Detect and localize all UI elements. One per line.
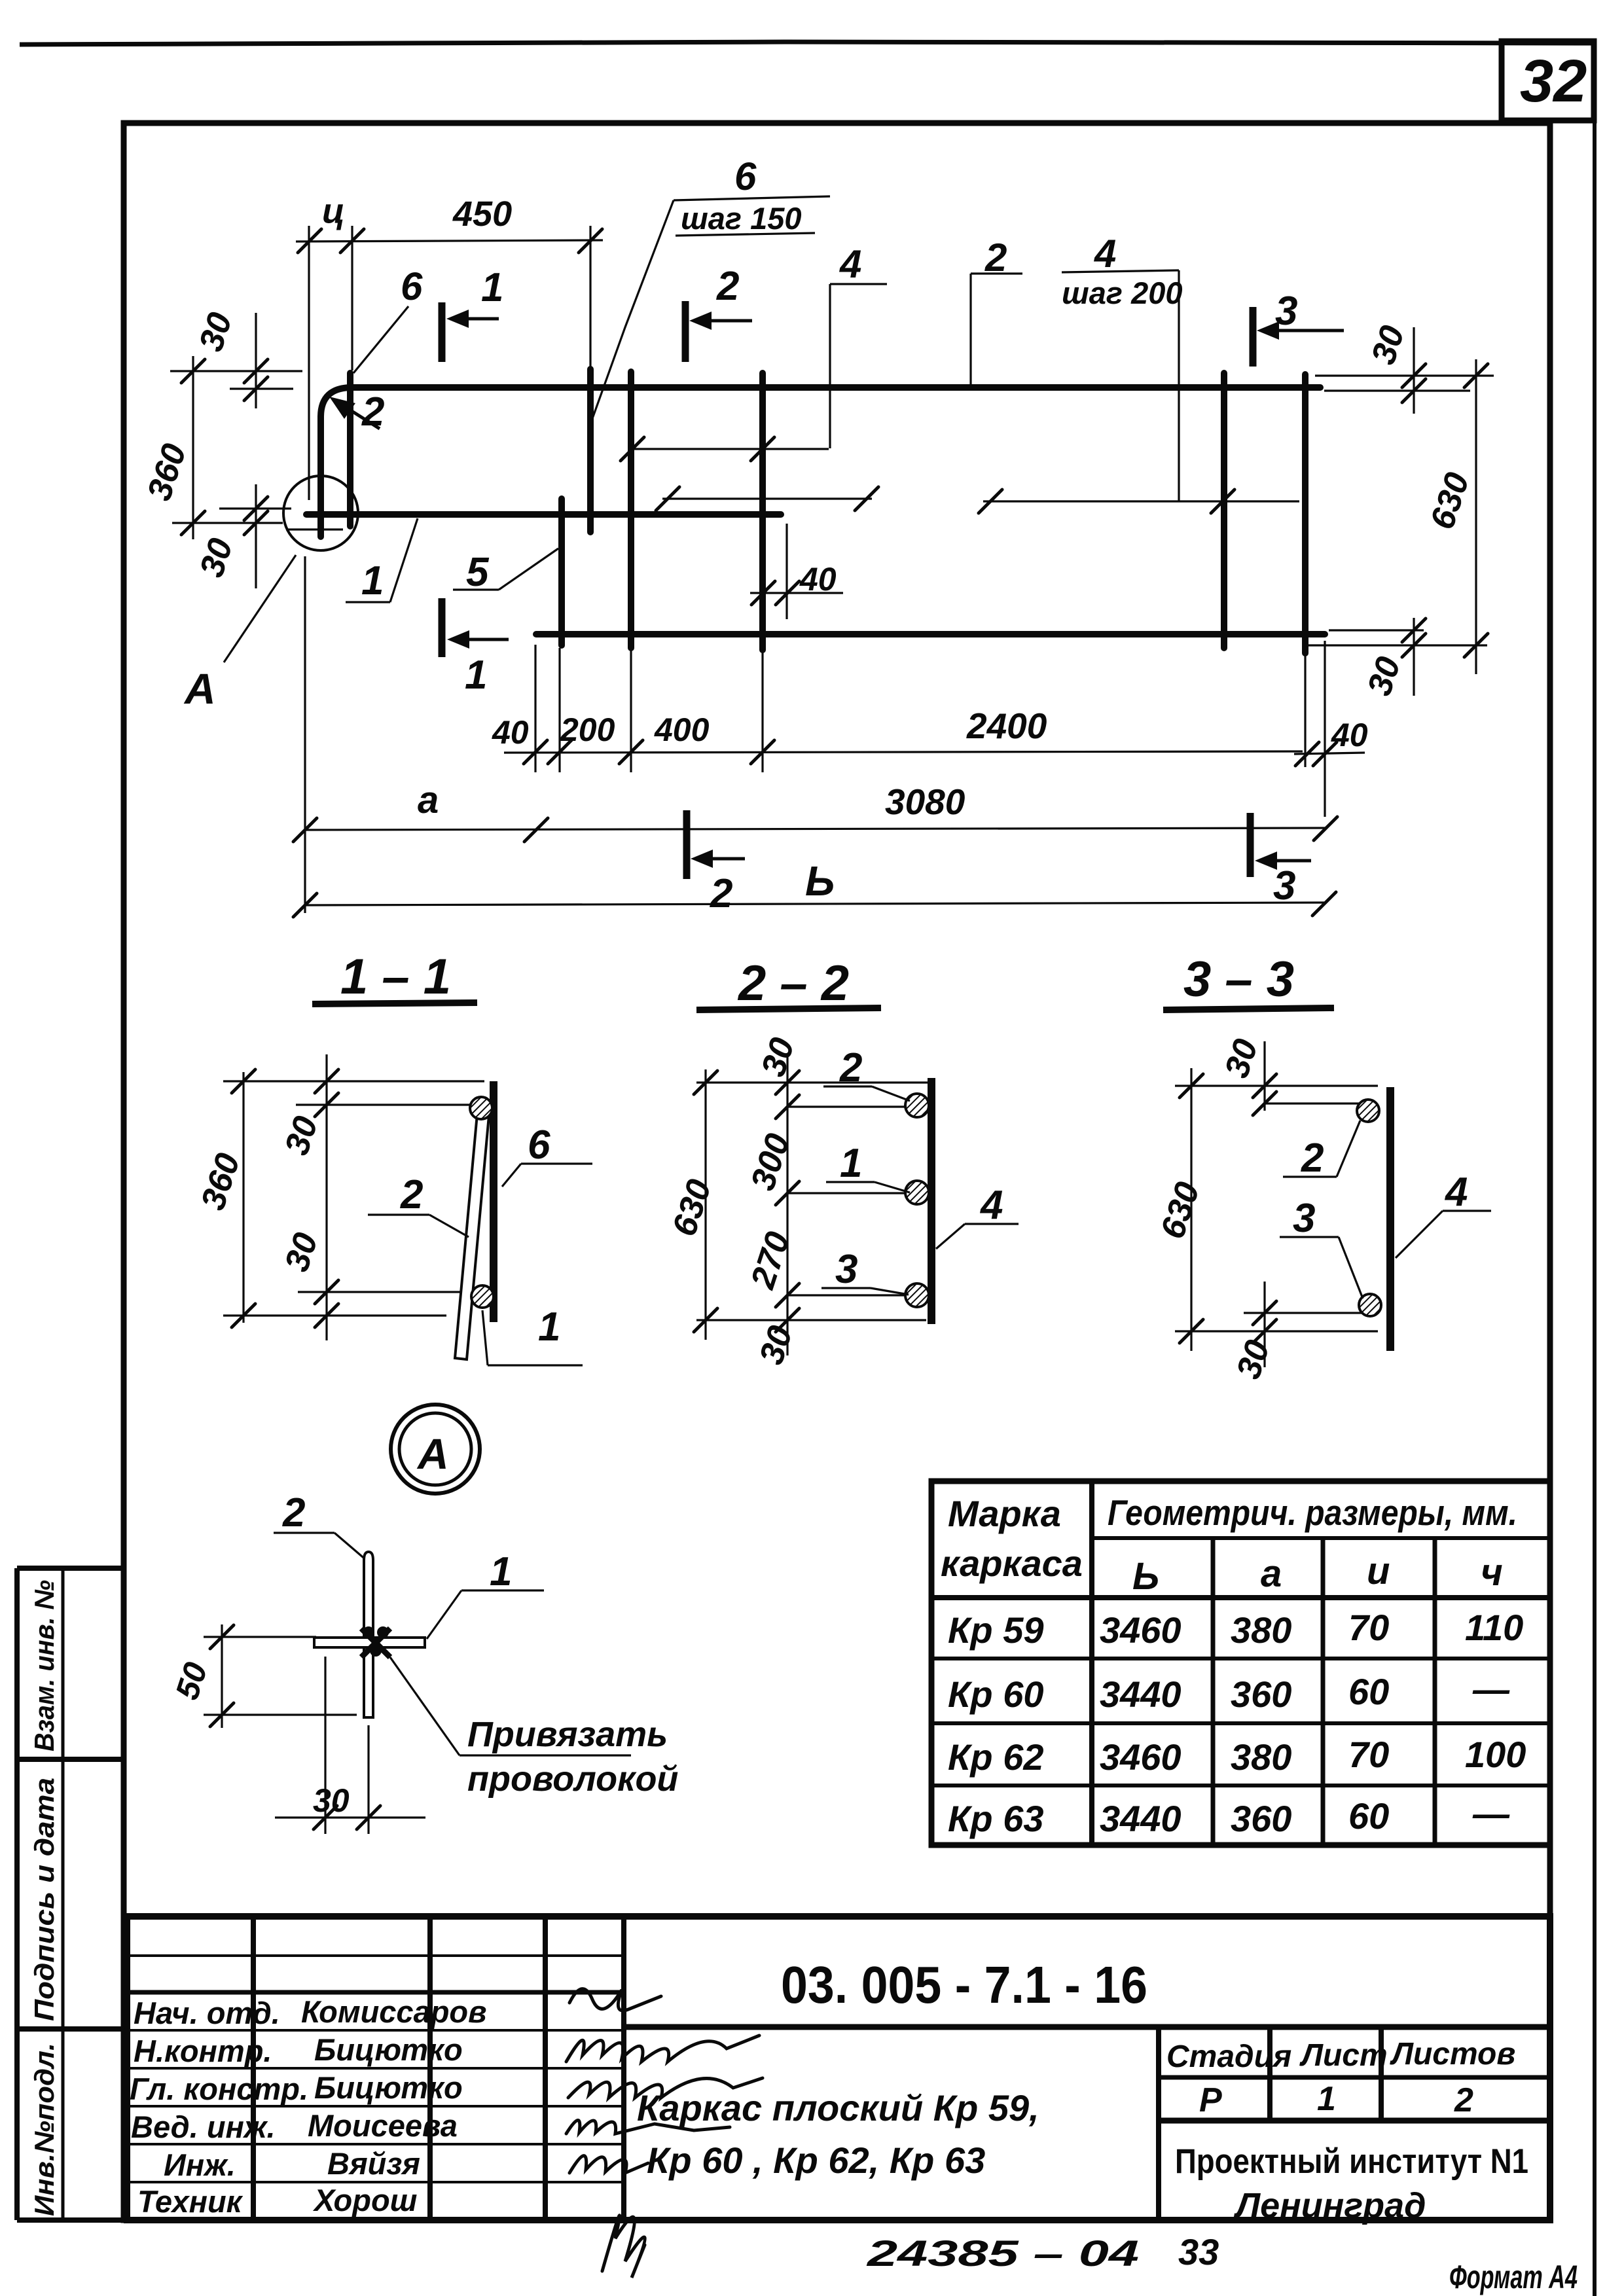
- svg-text:400: 400: [654, 711, 710, 748]
- detail circle A: [283, 476, 358, 550]
- svg-text:Листов: Листов: [1390, 2037, 1515, 2072]
- svg-text:Привязать: Привязать: [467, 1715, 668, 1754]
- svg-text:Кр 60: Кр 60: [948, 1674, 1043, 1715]
- rod at 1870: [1221, 373, 1227, 648]
- svg-text:630: 630: [1423, 468, 1477, 534]
- svg-text:32: 32: [1520, 48, 1587, 115]
- svg-text:2: 2: [716, 264, 739, 309]
- svg-text:Проектный институт N1: Проектный институт N1: [1175, 2142, 1528, 2181]
- svg-text:Бицютко: Бицютко: [314, 2032, 463, 2067]
- svg-text:Ленинград: Ленинград: [1233, 2186, 1426, 2225]
- svg-text:24385 – 04: 24385 – 04: [867, 2233, 1139, 2274]
- svg-text:360: 360: [1231, 1798, 1291, 1839]
- svg-text:Ь: Ь: [805, 857, 835, 905]
- right dims 30 630 30 40: [1315, 374, 1494, 376]
- s33 bar section circles: [1357, 1100, 1379, 1122]
- svg-text:2: 2: [710, 871, 732, 916]
- svg-text:А: А: [416, 1429, 449, 1478]
- rod at 1165: [759, 373, 766, 650]
- svg-text:270: 270: [744, 1227, 797, 1293]
- svg-text:2: 2: [400, 1172, 423, 1217]
- svg-text:110: 110: [1465, 1607, 1523, 1648]
- svg-text:Кр 62: Кр 62: [948, 1736, 1043, 1778]
- s33 dim lines: [1190, 1068, 1192, 1351]
- svg-text:33: 33: [1178, 2231, 1219, 2272]
- svg-text:Вяйзя: Вяйзя: [327, 2146, 420, 2181]
- svg-text:Лист: Лист: [1299, 2038, 1388, 2073]
- mid 40 dim at bar end: [785, 524, 787, 619]
- s11 dim lines: [242, 1072, 244, 1323]
- rod at 902: [587, 369, 594, 532]
- svg-text:630: 630: [1153, 1177, 1207, 1244]
- section mark 3 bottom: [1247, 813, 1254, 877]
- s22 bar 4 edge-on: [928, 1078, 935, 1324]
- s11 inclined rod 2: [455, 1100, 490, 1359]
- svg-text:40: 40: [799, 561, 837, 598]
- svg-text:3 – 3: 3 – 3: [1183, 952, 1294, 1007]
- svg-text:2: 2: [1301, 1136, 1324, 1181]
- s11 bar 6 edge-on: [490, 1081, 497, 1322]
- svg-text:3460: 3460: [1100, 1736, 1182, 1778]
- rod 2 at hook: [347, 373, 353, 526]
- svg-text:30: 30: [192, 308, 240, 356]
- svg-text:Геометрич. размеры, мм.: Геометрич. размеры, мм.: [1108, 1492, 1517, 1533]
- s33 bar 4 edge-on: [1386, 1087, 1394, 1351]
- svg-text:60: 60: [1348, 1795, 1389, 1837]
- svg-text:4: 4: [1444, 1170, 1468, 1215]
- svg-text:2 – 2: 2 – 2: [737, 956, 849, 1011]
- section mark 3 top: [1250, 307, 1257, 367]
- svg-text:каркаса: каркаса: [941, 1543, 1083, 1584]
- svg-text:30: 30: [1229, 1336, 1277, 1384]
- section mark 2 top: [682, 301, 689, 362]
- svg-text:200: 200: [560, 711, 615, 748]
- svg-text:2: 2: [1454, 2081, 1473, 2119]
- svg-text:3460: 3460: [1100, 1609, 1182, 1651]
- svg-text:а: а: [1261, 1552, 1282, 1595]
- svg-text:Кр 60 , Кр 62, Кр 63: Кр 60 , Кр 62, Кр 63: [647, 2140, 985, 2181]
- svg-text:630: 630: [665, 1175, 719, 1241]
- svg-text:Ь: Ь: [1132, 1555, 1159, 1598]
- wire tie: [361, 1628, 390, 1657]
- section mark 2 bottom: [683, 810, 691, 879]
- svg-text:Формат А4: Формат А4: [1449, 2259, 1578, 2295]
- svg-text:2: 2: [282, 1490, 305, 1535]
- svg-text:1: 1: [490, 1549, 512, 1594]
- svg-text:Инв.№подл.: Инв.№подл.: [29, 2043, 60, 2216]
- svg-text:70: 70: [1348, 1734, 1389, 1775]
- s22 bar section circles: [905, 1094, 929, 1117]
- table frame: [931, 1481, 1550, 1845]
- svg-text:ц: ц: [322, 192, 345, 231]
- svg-text:шаг 150: шаг 150: [681, 201, 802, 236]
- svg-text:а: а: [418, 779, 439, 821]
- bar 1: middle longitudinal bar: [306, 511, 781, 518]
- svg-text:Кр 63: Кр 63: [948, 1798, 1043, 1839]
- svg-text:—: —: [1472, 1668, 1510, 1710]
- svg-text:3440: 3440: [1100, 1798, 1182, 1839]
- svg-text:40: 40: [492, 714, 529, 751]
- svg-text:5: 5: [466, 550, 490, 595]
- svg-text:30: 30: [192, 534, 240, 582]
- svg-text:Хорош: Хорош: [312, 2183, 417, 2217]
- svg-text:Техник: Техник: [137, 2184, 244, 2219]
- svg-text:4: 4: [979, 1183, 1003, 1228]
- right page edge vertical line: [1593, 120, 1597, 2296]
- svg-text:30: 30: [1364, 321, 1412, 369]
- detail A badge: [391, 1405, 480, 1494]
- svg-text:Нач. отд.: Нач. отд.: [134, 1996, 280, 2030]
- svg-text:6: 6: [734, 154, 757, 198]
- dim 30: [324, 1657, 326, 1834]
- svg-text:380: 380: [1231, 1736, 1291, 1778]
- top scan edge line: [20, 42, 1594, 45]
- svg-text:проволокой: проволокой: [467, 1759, 678, 1799]
- svg-text:Комиссаров: Комиссаров: [301, 1994, 487, 2029]
- svg-text:40: 40: [1331, 717, 1368, 753]
- dim line L: [305, 903, 1324, 905]
- svg-text:1: 1: [465, 653, 487, 698]
- title block frame: [127, 1916, 1550, 2220]
- svg-text:360: 360: [194, 1149, 247, 1215]
- svg-text:03. 005 - 7.1 - 16: 03. 005 - 7.1 - 16: [781, 1956, 1147, 2014]
- svg-text:2400: 2400: [966, 706, 1047, 746]
- svg-text:Гл. констр.: Гл. констр.: [130, 2072, 308, 2106]
- dim line a 3080: [304, 556, 306, 913]
- dim 50: [221, 1624, 223, 1728]
- svg-text:30: 30: [1218, 1035, 1265, 1083]
- svg-text:3440: 3440: [1100, 1674, 1182, 1715]
- svg-text:Каркас плоский Кр 59,: Каркас плоский Кр 59,: [637, 2087, 1039, 2128]
- left stamp strip outer: [17, 1568, 124, 2220]
- top dimension ц 450: [296, 240, 603, 242]
- svg-text:Кр 59: Кр 59: [948, 1609, 1043, 1651]
- svg-text:2: 2: [361, 389, 384, 435]
- svg-text:70: 70: [1348, 1607, 1389, 1648]
- svg-text:300: 300: [744, 1129, 797, 1195]
- svg-text:100: 100: [1465, 1734, 1526, 1775]
- svg-text:1: 1: [538, 1304, 560, 1350]
- svg-text:—: —: [1472, 1793, 1510, 1834]
- svg-text:и: и: [1367, 1550, 1390, 1592]
- svg-text:380: 380: [1231, 1609, 1291, 1651]
- svg-text:30: 30: [278, 1229, 325, 1276]
- svg-text:ч: ч: [1481, 1551, 1503, 1594]
- svg-text:2: 2: [839, 1045, 862, 1090]
- svg-text:3: 3: [835, 1247, 857, 1292]
- svg-text:3: 3: [1273, 863, 1295, 908]
- svg-text:360: 360: [140, 439, 194, 505]
- signatures: [569, 1989, 661, 2011]
- bar 3: bottom longitudinal bar: [536, 631, 1325, 637]
- rod 5: [558, 499, 565, 645]
- svg-text:1: 1: [840, 1141, 862, 1186]
- svg-text:1: 1: [1317, 2080, 1336, 2118]
- svg-text:450: 450: [452, 194, 512, 234]
- svg-text:шаг 200: шаг 200: [1062, 276, 1183, 310]
- svg-text:4: 4: [839, 242, 861, 286]
- horizontal rod 1 outline: [314, 1638, 425, 1647]
- svg-text:Моисеева: Моисеева: [308, 2108, 458, 2143]
- bottom dim chain 40 200 400 2400 40: [504, 751, 1303, 753]
- svg-text:6: 6: [401, 264, 423, 308]
- svg-text:360: 360: [1231, 1674, 1291, 1715]
- svg-text:Вед. инж.: Вед. инж.: [131, 2109, 276, 2144]
- svg-text:1: 1: [361, 558, 384, 603]
- svg-text:3: 3: [1275, 289, 1297, 334]
- svg-text:Бицютко: Бицютко: [314, 2070, 463, 2105]
- svg-text:А: А: [183, 664, 216, 713]
- svg-text:30: 30: [752, 1321, 800, 1369]
- svg-text:Взам. инв. №: Взам. инв. №: [29, 1580, 60, 1751]
- svg-text:1: 1: [481, 265, 503, 310]
- vertical rod 2 outline: [364, 1552, 373, 1717]
- section mark 1 bottom: [439, 598, 446, 657]
- svg-text:30: 30: [313, 1782, 350, 1819]
- svg-text:4: 4: [1094, 232, 1116, 276]
- rod at 964: [628, 372, 634, 648]
- page number box 32: [1502, 41, 1594, 120]
- svg-text:Стадия: Стадия: [1166, 2039, 1291, 2074]
- svg-text:60: 60: [1348, 1671, 1389, 1712]
- svg-text:Марка: Марка: [948, 1493, 1061, 1534]
- rod at 1994: [1302, 374, 1308, 653]
- svg-text:1 – 1: 1 – 1: [340, 949, 451, 1005]
- svg-text:Р: Р: [1199, 2081, 1222, 2119]
- svg-text:3080: 3080: [885, 781, 965, 822]
- svg-text:50: 50: [168, 1658, 215, 1704]
- section mark 1 top: [439, 302, 446, 362]
- bent bar 6: top longitudinal bar with hook: [321, 387, 1320, 537]
- svg-text:Инж.: Инж.: [164, 2147, 236, 2182]
- s11 bar section circles: [470, 1097, 492, 1119]
- svg-text:6: 6: [528, 1122, 550, 1168]
- svg-text:30: 30: [278, 1112, 325, 1160]
- svg-text:30: 30: [1360, 653, 1408, 700]
- s22 dim lines: [704, 1069, 706, 1340]
- svg-text:Н.контр.: Н.контр.: [134, 2034, 272, 2068]
- svg-text:Подпись и дата: Подпись и дата: [29, 1778, 60, 2021]
- left dim chain 30 360 30: [192, 356, 194, 539]
- svg-text:3: 3: [1293, 1196, 1315, 1241]
